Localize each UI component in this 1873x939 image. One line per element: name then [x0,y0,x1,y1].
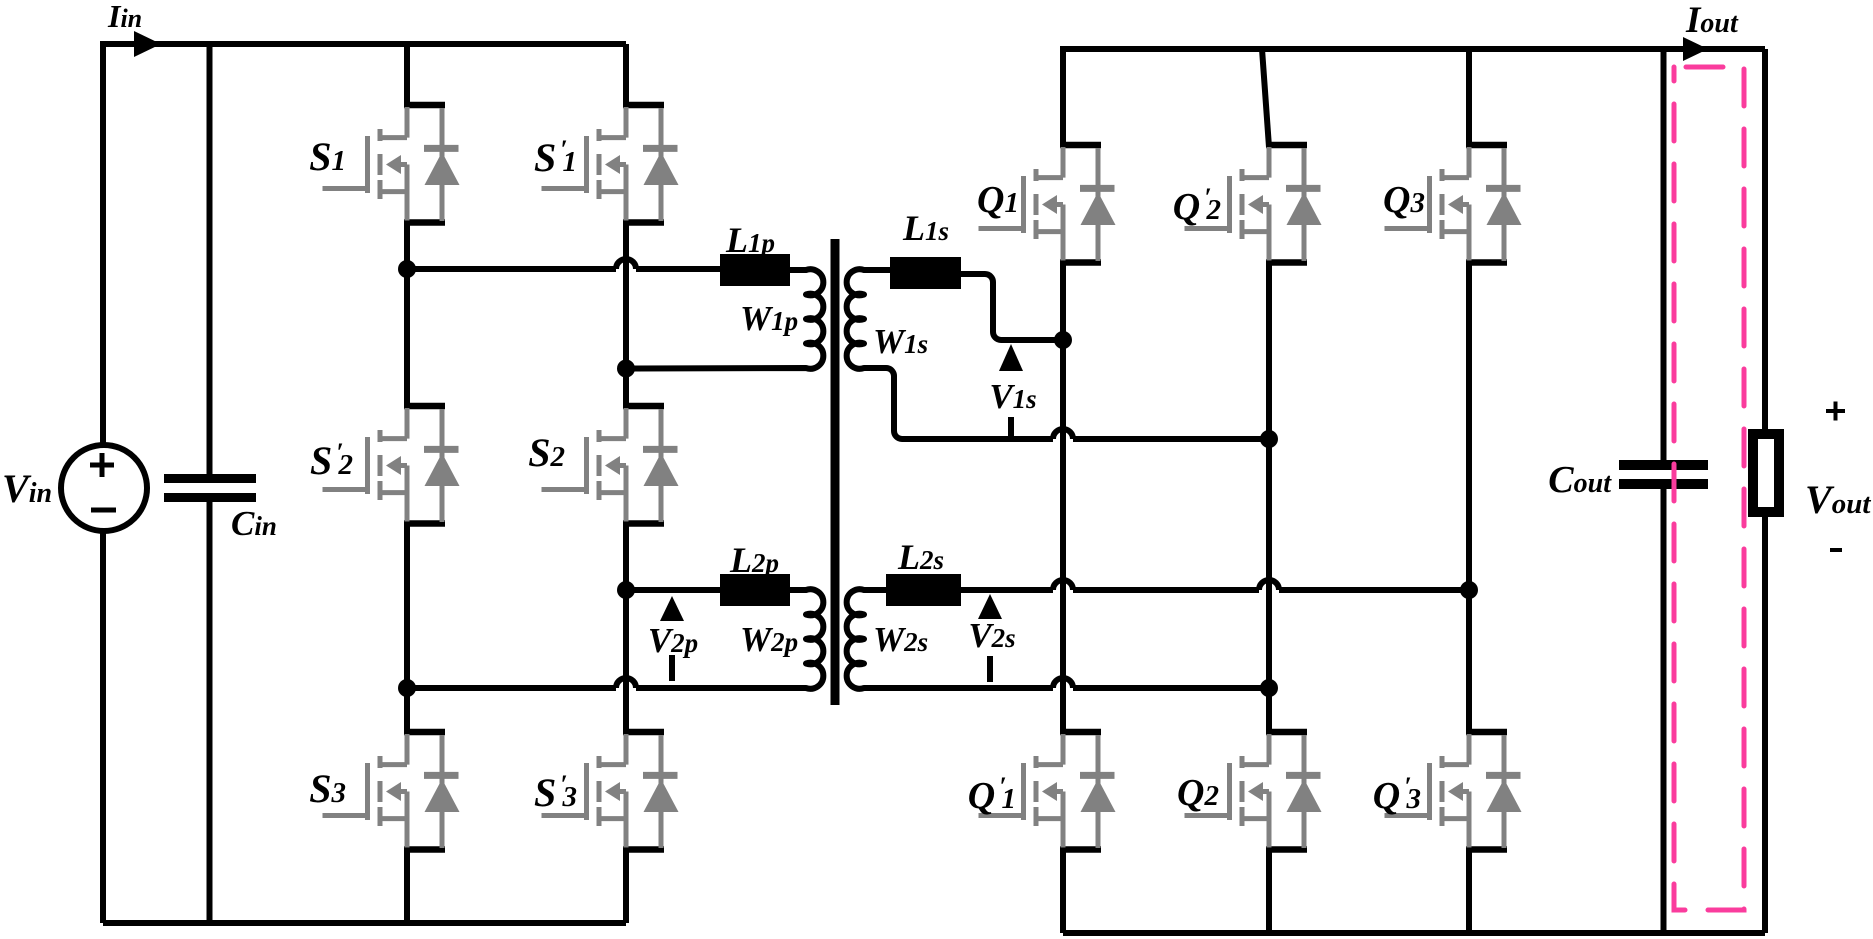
arrow Iin [134,31,161,57]
node E1 [1460,581,1478,599]
svg-text:Vout: Vout [1805,477,1871,522]
capacitor Cin [207,44,213,923]
wire W2p bottom with hop [407,678,806,688]
svg-text:L2p: L2p [729,540,779,580]
wire left input loop top [103,44,626,444]
svg-text:W1p: W1p [740,299,798,338]
transistor S'2 [323,406,460,524]
arrow Iout [1683,37,1708,61]
wire L2s to bus E with hops [961,580,1469,590]
svg-text:V2s: V2s [968,616,1015,655]
node B2 [617,581,635,599]
svg-text:L1p: L1p [725,220,775,260]
winding W1s [847,269,1269,439]
svg-text:W2p: W2p [740,620,798,659]
wire bus B x=626 [623,44,629,923]
svg-text:V2p: V2p [648,621,698,660]
wire bottom left rail [103,920,626,926]
transformer core [831,239,840,705]
node B1 [617,360,635,378]
wire load branch [1762,49,1768,933]
transistor S3 [323,732,460,850]
winding W2p [788,589,823,689]
svg-text:Cin: Cin [231,504,277,543]
arrow V1s [999,344,1023,371]
transistor Q2 [1185,732,1322,850]
svg-text:V1s: V1s [989,377,1036,416]
inductor L1p [720,254,790,286]
wire L2p lead [626,587,720,593]
inductor L2p [720,574,790,606]
voltage source Vin [61,445,147,531]
svg-text:L2s: L2s [897,537,944,577]
tick V1s [1008,417,1014,439]
label minus [1830,548,1842,552]
node D2 [1260,679,1278,697]
svg-text:Iout: Iout [1685,0,1739,41]
svg-text:Q′2: Q′2 [1173,183,1221,228]
transistor Q'3 [1385,732,1522,850]
svg-text:Cout: Cout [1548,459,1612,501]
wire bus A x=407 [404,44,410,923]
transistor Q1 [979,145,1116,263]
arrow V2s [978,594,1002,619]
tick V2s [987,656,993,682]
svg-text:S1: S1 [309,134,346,179]
wire bus E x=1469 [1466,49,1472,933]
svg-text:S3: S3 [309,766,346,811]
arrow V2p [660,596,684,621]
transistor Q3 [1385,145,1522,263]
svg-text:Vin: Vin [2,466,52,511]
wire bus D x=1269 [1262,49,1269,933]
svg-text:Q1: Q1 [977,179,1019,221]
capacitor Cout [1661,49,1667,933]
transistor Q'2 [1185,145,1322,263]
wire primary top with hop [407,259,720,269]
node A1 [398,260,416,278]
wire bus C x=1063 [1060,261,1066,933]
pink dashed box [1674,67,1744,910]
transistor S'3 [542,732,679,850]
svg-text:Q2: Q2 [1177,772,1219,814]
svg-text:Q′3: Q′3 [1373,772,1421,817]
winding W1p [626,269,823,369]
node C1 [1054,331,1072,349]
svg-text:W2s: W2s [873,620,928,659]
transistor S1 [323,105,460,223]
wire bottom right rail [1063,930,1765,936]
winding W2s [847,589,1269,689]
transistor Q'1 [979,732,1116,850]
svg-text:Iin: Iin [107,0,142,34]
label plus [1826,402,1845,421]
svg-text:W1s: W1s [873,322,928,361]
svg-text:Q′1: Q′1 [968,772,1016,817]
svg-text:Q3: Q3 [1383,179,1425,221]
resistor Vout load [1753,434,1779,512]
svg-text:S2: S2 [528,430,565,475]
transistor S'1 [542,105,679,223]
inductor L1s [890,257,961,289]
node D1 [1260,430,1278,448]
wire L1s to bus C [961,274,1063,340]
svg-text:S′2: S′2 [310,438,353,483]
tick V2p [669,655,675,681]
svg-text:S′1: S′1 [534,135,577,180]
node A2 [398,679,416,697]
inductor L2s [886,574,961,606]
svg-text:S′3: S′3 [534,770,577,815]
svg-text:L1s: L1s [902,208,949,248]
wire top right rail [1063,49,1765,147]
wire Vin bottom [100,532,106,923]
transistor S2 [542,406,679,524]
